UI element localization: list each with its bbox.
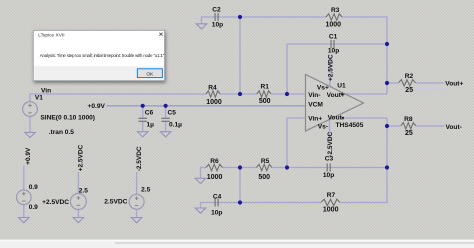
svg-text:R8: R8 [404,116,413,123]
svg-text:10p: 10p [212,22,223,29]
svg-text:500: 500 [258,174,270,181]
svg-text:Vout+: Vout+ [445,80,463,87]
svg-text:Vout+: Vout+ [327,92,345,99]
svg-text:C4: C4 [213,193,222,200]
svg-text:VCM: VCM [308,102,323,109]
svg-text:R5: R5 [261,158,270,165]
svg-text:R7: R7 [327,192,336,199]
svg-text:R6: R6 [210,158,219,165]
svg-text:1000: 1000 [206,99,222,106]
svg-text:Vout-: Vout- [446,124,462,131]
svg-text:C2: C2 [212,7,221,14]
svg-text:500: 500 [259,98,271,105]
svg-text:Vs+: Vs+ [317,85,329,92]
svg-text:10p: 10p [323,172,334,179]
svg-text:+2.5VDC: +2.5VDC [78,144,85,171]
svg-text:R4: R4 [208,84,217,91]
svg-text:0.1µ: 0.1µ [169,121,182,128]
svg-text:OK: OK [146,72,154,78]
svg-text:Vout-: Vout- [328,115,344,122]
svg-text:Analysis: Time step too small;: Analysis: Time step too small; initial t… [40,53,165,58]
svg-text:THS4505: THS4505 [336,122,364,129]
svg-text:SINE(0 0.10 1000): SINE(0 0.10 1000) [40,114,95,121]
svg-text:.tran 0.5: .tran 0.5 [49,129,75,136]
svg-text:R3: R3 [331,7,340,14]
svg-text:+2.5VDC: +2.5VDC [328,54,335,81]
svg-text:Vin-: Vin- [308,92,320,99]
svg-text:V1: V1 [35,94,43,101]
svg-text:0.9: 0.9 [29,204,38,211]
svg-text:U1: U1 [337,83,346,90]
svg-text:-2.5VDC: -2.5VDC [327,131,334,156]
svg-text:2.5VDC: 2.5VDC [104,199,127,206]
svg-text:R1: R1 [261,84,270,91]
svg-text:C5: C5 [168,110,177,117]
svg-text:10p: 10p [328,48,339,55]
svg-text:C6: C6 [145,110,154,117]
svg-text:0.9: 0.9 [29,184,38,191]
svg-text:25: 25 [405,87,413,94]
svg-text:Vs-: Vs- [318,123,328,130]
svg-text:2.5: 2.5 [79,188,88,195]
svg-text:LTspice XVII: LTspice XVII [38,32,64,38]
svg-text:1000: 1000 [207,174,223,181]
svg-text:C1: C1 [329,33,338,40]
svg-text:2.5: 2.5 [141,187,150,194]
svg-text:+0.9V: +0.9V [88,103,106,110]
svg-text:+0.9V: +0.9V [25,147,32,165]
svg-text:Vin: Vin [41,87,51,94]
svg-text:1000: 1000 [326,22,342,29]
svg-text:1000: 1000 [323,207,339,214]
svg-text:1µ: 1µ [147,121,155,128]
svg-text:Vin+: Vin+ [308,116,322,123]
svg-text:-2.5VDC: -2.5VDC [136,146,143,171]
svg-text:10p: 10p [211,210,222,217]
svg-text:R2: R2 [405,73,414,80]
svg-text:25: 25 [405,130,413,137]
svg-text:+2.5VDC: +2.5VDC [42,199,69,206]
